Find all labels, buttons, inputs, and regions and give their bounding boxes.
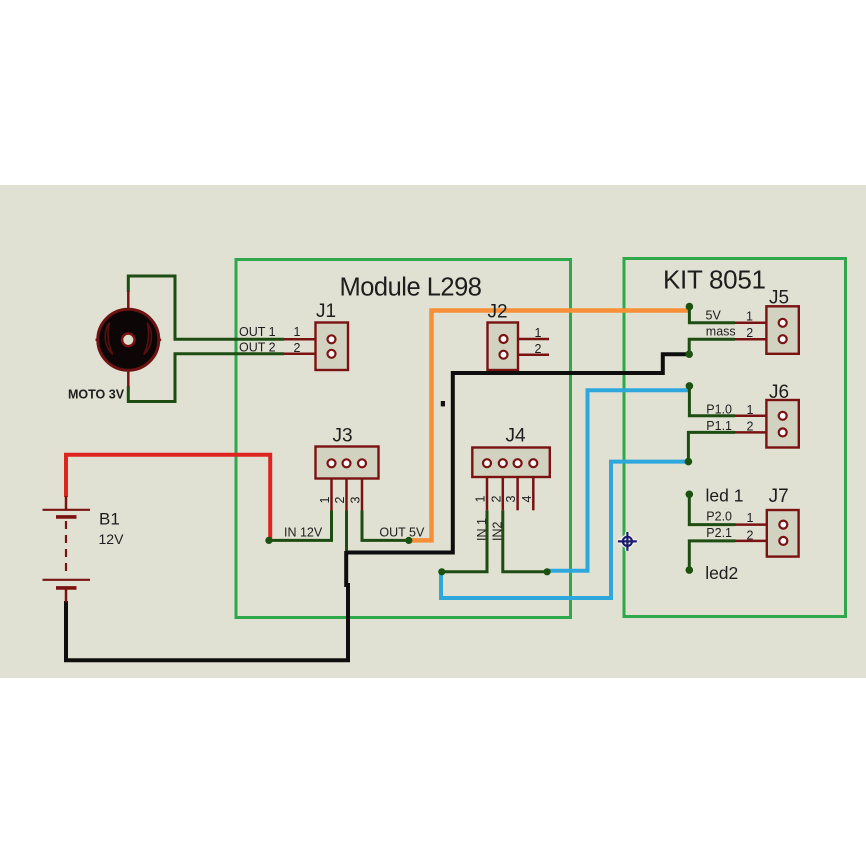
pin number 2 of J1: [294, 341, 301, 355]
junction node led2: [686, 566, 694, 574]
pin number 1 of J1: [294, 325, 301, 339]
pin number 1 of J5: [746, 309, 753, 323]
pin number 2 of J4: [489, 496, 503, 503]
junction node J4 pin2: [544, 568, 551, 575]
label MOTO 3V: [68, 388, 125, 402]
svg-text:2: 2: [747, 528, 754, 542]
svg-text:2: 2: [747, 420, 754, 434]
motor MOTO 3V: [96, 291, 162, 387]
svg-text:B1: B1: [99, 509, 120, 528]
red wire battery plus to IN 12V node: [66, 455, 270, 539]
svg-text:4: 4: [520, 496, 534, 503]
cursor crosshair marker: [618, 532, 637, 551]
pin number 2 of J2: [535, 342, 542, 356]
svg-text:12V: 12V: [99, 531, 125, 547]
black wire J3 pin2 to KIT mass: [347, 354, 688, 552]
label B1: [99, 509, 120, 528]
pin number 1 of J2: [535, 326, 542, 340]
label J6: [769, 382, 789, 403]
junction node P1.1: [685, 458, 693, 466]
wire 5V node to J5 pin1: [689, 308, 735, 323]
pin number 1 of J6: [747, 403, 754, 417]
wire motor bottom loop to J1 pin 2 (OUT2): [128, 354, 284, 402]
junction node mass: [685, 350, 693, 358]
svg-text:1: 1: [294, 325, 301, 339]
pin number 3 of J3: [349, 497, 363, 504]
svg-text:J5: J5: [769, 288, 789, 309]
svg-text:1: 1: [318, 497, 332, 504]
label P2.0: [706, 510, 732, 524]
label OUT 1: [239, 325, 276, 339]
svg-text:P2.1: P2.1: [706, 526, 732, 540]
wire led1 node to J7 pin1: [689, 494, 735, 524]
wire mass node to J5 pin2: [689, 339, 735, 354]
label IN2: [491, 522, 505, 542]
pin number 3 of J4: [504, 496, 518, 503]
wire motor top loop to J1 pin 1 (OUT1): [128, 276, 284, 339]
connector J6: [735, 400, 799, 448]
label Module L298: [340, 274, 482, 302]
wire J4 pin1 down-left to node: [442, 510, 487, 572]
module L298 boundary box: [236, 260, 571, 618]
connector J4: [472, 448, 550, 511]
pin number 1 of J7: [747, 511, 754, 525]
label J2: [488, 302, 508, 323]
svg-text:1: 1: [747, 511, 754, 525]
svg-text:led 1: led 1: [706, 486, 744, 506]
label P1.1: [706, 419, 732, 433]
label 5V: [706, 309, 722, 323]
junction node IN 12V: [265, 537, 272, 544]
svg-text:J4: J4: [506, 425, 527, 446]
blue wire J4 pin1 node to P1.1: [441, 462, 688, 598]
connector J7: [736, 510, 799, 557]
connector J1: [284, 323, 348, 371]
label led 1: [706, 486, 744, 506]
pin number 2 of J7: [747, 528, 754, 542]
wire J4 pin2 down-right to node: [503, 510, 547, 572]
label J3: [333, 425, 353, 446]
connector J5: [735, 306, 799, 354]
svg-text:2: 2: [294, 341, 301, 355]
svg-text:OUT 2: OUT 2: [239, 340, 276, 354]
svg-text:J2: J2: [488, 302, 508, 323]
junction node J4 pin1: [438, 568, 445, 575]
black wire battery minus loop: [66, 551, 348, 660]
wire led2 node to J7 pin2: [689, 541, 735, 570]
connector J3: [316, 447, 379, 511]
label P1.0: [706, 402, 732, 416]
svg-text:3: 3: [504, 496, 518, 503]
junction node 5V: [686, 303, 694, 311]
svg-text:J1: J1: [316, 301, 336, 322]
wire P1.0 node to J6 pin1: [689, 388, 735, 416]
svg-text:2: 2: [489, 496, 503, 503]
pin number 2 of J5: [746, 326, 753, 340]
wire J3 pin2 stub down: [345, 511, 348, 553]
svg-text:OUT 1: OUT 1: [239, 325, 276, 339]
svg-text:P1.0: P1.0: [706, 402, 732, 416]
wire P1.1 node to J6 pin2: [688, 432, 735, 461]
svg-text:1: 1: [747, 403, 754, 417]
KIT 8051 boundary box: [624, 259, 846, 617]
svg-text:3: 3: [349, 497, 363, 504]
svg-text:mass: mass: [706, 324, 736, 338]
svg-text:Module L298: Module L298: [340, 274, 482, 302]
svg-text:J3: J3: [333, 425, 353, 446]
pin number 1 of J3: [318, 497, 332, 504]
junction node P1.0: [686, 382, 694, 390]
label OUT 5V: [379, 526, 425, 540]
svg-text:J6: J6: [769, 382, 789, 403]
battery B1: [43, 496, 91, 602]
svg-text:OUT 5V: OUT 5V: [379, 526, 425, 540]
label KIT 8051: [663, 265, 766, 295]
svg-text:KIT 8051: KIT 8051: [663, 265, 766, 295]
svg-text:2: 2: [535, 342, 542, 356]
label IN 12V: [284, 526, 323, 540]
label J1: [316, 301, 336, 322]
junction node OUT 5V: [405, 537, 412, 544]
pin number 4 of J4: [520, 496, 534, 503]
pin number 2 of J6: [747, 420, 754, 434]
svg-text:led2: led2: [705, 563, 738, 583]
svg-text:5V: 5V: [706, 309, 722, 323]
svg-text:P1.1: P1.1: [706, 419, 732, 433]
svg-text:2: 2: [333, 497, 347, 504]
label J4: [506, 425, 527, 446]
svg-text:1: 1: [535, 326, 542, 340]
connector J2: [488, 323, 550, 371]
stray black dash artifact: [441, 401, 445, 406]
wire J3 pin3 to OUT 5V node: [362, 511, 409, 541]
svg-text:1: 1: [746, 309, 753, 323]
blue wire J4 pin2 node to P1.0: [549, 390, 689, 571]
pin number 1 of J4: [474, 496, 488, 503]
svg-text:P2.0: P2.0: [706, 510, 732, 524]
label mass: [706, 324, 736, 338]
wire J3 pin1 to IN 12V node: [269, 511, 332, 541]
label led2: [705, 563, 738, 583]
svg-text:MOTO 3V: MOTO 3V: [68, 388, 125, 402]
label P2.1: [706, 526, 732, 540]
svg-text:1: 1: [474, 496, 488, 503]
label J5: [769, 288, 789, 309]
svg-text:J7: J7: [769, 486, 789, 507]
label J7: [769, 486, 789, 507]
pin number 2 of J3: [333, 497, 347, 504]
junction node led1: [686, 491, 694, 499]
svg-text:IN 12V: IN 12V: [284, 526, 323, 540]
label 12V: [99, 531, 125, 547]
svg-text:2: 2: [746, 326, 753, 340]
label IN 1: [475, 518, 489, 541]
label OUT 2: [239, 340, 276, 354]
orange wire OUT 5V to KIT 5V: [410, 311, 690, 541]
